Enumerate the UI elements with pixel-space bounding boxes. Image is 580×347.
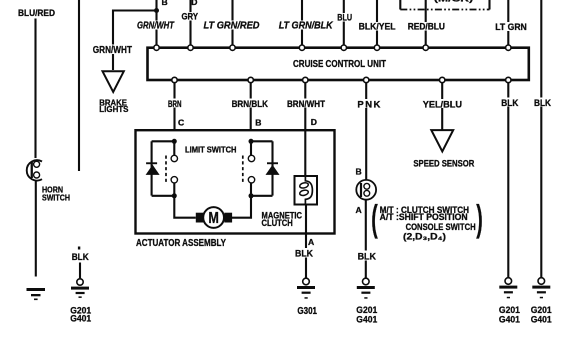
label YEL/BLU bbox=[422, 99, 464, 111]
label LT GRN/RED italic bbox=[203, 21, 260, 32]
label MAGNETIC CLUTCH bbox=[262, 211, 303, 229]
svg-text:GRY: GRY bbox=[182, 12, 199, 22]
node C junction in actuator bbox=[152, 139, 177, 144]
label M/T A/T switch block bbox=[371, 198, 483, 242]
wire BLU bbox=[343, 0, 345, 47]
wire BLU/RED vertical bbox=[34, 19, 36, 159]
label GRY bbox=[181, 12, 200, 22]
horn switch ground bbox=[27, 288, 46, 300]
label BLK (switch ground) bbox=[357, 251, 378, 263]
wire LT GRN bbox=[507, 0, 509, 47]
svg-text:CRUISE CONTROL UNIT: CRUISE CONTROL UNIT bbox=[293, 59, 386, 70]
wire horn switch to ground bbox=[35, 181, 37, 277]
svg-text:G401: G401 bbox=[70, 313, 92, 324]
svg-text:): ) bbox=[476, 198, 483, 239]
label BLK (unit right) bbox=[500, 98, 520, 110]
limit switch right contacts bbox=[243, 141, 255, 196]
svg-text:YEL/BLU: YEL/BLU bbox=[423, 100, 462, 111]
svg-text:G401: G401 bbox=[356, 314, 378, 325]
terminal BRN/BLK bbox=[248, 77, 253, 82]
actuator assembly box bbox=[136, 130, 335, 233]
node B junction in actuator bbox=[249, 139, 273, 144]
label BRN bbox=[167, 99, 183, 111]
svg-text:BLU: BLU bbox=[337, 13, 352, 23]
label BRN/WHT bbox=[286, 99, 327, 111]
svg-text:(M/CR): (M/CR) bbox=[434, 0, 473, 3]
label PNK bbox=[356, 99, 382, 111]
svg-text:CLUTCH: CLUTCH bbox=[262, 218, 293, 228]
label BLK/YEL bbox=[358, 22, 397, 32]
wire BLK right from unit to ground bbox=[507, 81, 509, 278]
svg-text:BLK: BLK bbox=[295, 249, 313, 260]
label LT GRN/BLK italic bbox=[278, 21, 337, 32]
ground G201/G401 right2 bbox=[532, 278, 550, 299]
label G201 G401 right2 bbox=[531, 305, 553, 325]
terminal BRN bbox=[172, 77, 177, 82]
magnetic clutch coil bbox=[295, 176, 318, 205]
svg-text:B: B bbox=[356, 166, 362, 176]
svg-text:ACTUATOR ASSEMBLY: ACTUATOR ASSEMBLY bbox=[136, 238, 226, 249]
svg-text:SWITCH: SWITCH bbox=[42, 193, 70, 203]
speed sensor arrow bbox=[431, 130, 453, 151]
svg-text:BRN: BRN bbox=[168, 99, 182, 110]
svg-text:LT GRN: LT GRN bbox=[495, 22, 527, 33]
wire brake lights branch bbox=[113, 11, 158, 71]
wire BRN/BLK (pin B) bbox=[250, 81, 252, 130]
diode D1 branch (left) bbox=[146, 141, 160, 195]
node left lower junction bbox=[152, 193, 196, 217]
horn switch SW1 bbox=[27, 160, 42, 180]
label BLK (G301) bbox=[294, 248, 315, 260]
cruise control unit box bbox=[148, 48, 529, 80]
svg-text:LT GRN/BLK: LT GRN/BLK bbox=[279, 21, 334, 32]
svg-text:(: ( bbox=[371, 198, 378, 239]
svg-text:CONSOLE SWITCH: CONSOLE SWITCH bbox=[406, 222, 476, 232]
svg-text:LIMIT SWITCH: LIMIT SWITCH bbox=[185, 146, 237, 155]
svg-text:M: M bbox=[208, 210, 219, 227]
svg-text:A/T :SHIFT POSITION: A/T :SHIFT POSITION bbox=[380, 212, 468, 222]
label BRN/BLK bbox=[231, 99, 270, 111]
terminal LT GRN/BLK bbox=[299, 45, 304, 50]
wire BLK to ground G201/G401 left bbox=[79, 263, 81, 279]
svg-text:BLK: BLK bbox=[501, 98, 518, 109]
svg-text:BLK: BLK bbox=[534, 98, 551, 109]
ground G301 bbox=[297, 278, 315, 299]
terminal C top of unit bbox=[154, 45, 159, 50]
svg-text:A: A bbox=[308, 237, 314, 247]
svg-text:D: D bbox=[191, 0, 197, 7]
svg-text:C: C bbox=[178, 117, 184, 127]
label LT GRN bbox=[494, 22, 527, 33]
svg-text:D: D bbox=[311, 117, 317, 127]
brake lights arrow bbox=[103, 71, 124, 92]
svg-text:G401: G401 bbox=[499, 314, 521, 325]
svg-text:GRN/WHT: GRN/WHT bbox=[137, 21, 175, 32]
label BLK (far right) bbox=[533, 98, 553, 110]
node right lower junction bbox=[232, 193, 273, 217]
wire PNK bbox=[365, 81, 367, 180]
terminal BLU bbox=[341, 45, 346, 50]
label G201 G401 right1 bbox=[499, 305, 521, 325]
label G201 G401 left bbox=[70, 306, 92, 325]
label BLU bbox=[336, 13, 353, 23]
diode D2 branch (right) bbox=[266, 141, 280, 195]
motor M bbox=[196, 207, 232, 228]
wire BLK/YEL bbox=[376, 0, 378, 47]
terminal YEL/BLU bbox=[440, 77, 445, 82]
svg-text:BRN/BLK: BRN/BLK bbox=[232, 99, 269, 110]
svg-text:SPEED SENSOR: SPEED SENSOR bbox=[413, 159, 474, 169]
wire YEL/BLU bbox=[441, 81, 443, 130]
wire magnetic clutch to ground G301 bbox=[305, 205, 307, 279]
svg-text:A: A bbox=[356, 205, 362, 215]
label HORN SWITCH bbox=[42, 185, 70, 203]
svg-text:G301: G301 bbox=[297, 306, 317, 317]
svg-text:LT GRN/RED: LT GRN/RED bbox=[204, 21, 260, 32]
label BRAKE LIGHTS bbox=[99, 98, 129, 114]
label GRN/WHT italic bbox=[136, 21, 176, 32]
svg-text:RED/BLU: RED/BLU bbox=[408, 22, 445, 32]
svg-text:PNK: PNK bbox=[357, 100, 380, 111]
svg-text:BRN/WHT: BRN/WHT bbox=[287, 99, 325, 110]
ground G201/G401 left (BLK) bbox=[71, 279, 89, 298]
svg-text:LIGHTS: LIGHTS bbox=[99, 104, 129, 114]
ground G201/G401 mid bbox=[357, 278, 375, 299]
clutch / shift position switch SW2 bbox=[356, 180, 376, 200]
terminal BRN/WHT bbox=[303, 77, 308, 82]
svg-text:B: B bbox=[255, 117, 261, 127]
limit switch left contacts bbox=[166, 141, 178, 196]
wire second left vertical (dead end) bbox=[78, 0, 80, 171]
wire BLK stub above label bbox=[78, 247, 80, 250]
svg-text:B: B bbox=[162, 0, 168, 7]
terminal BLK/YEL bbox=[374, 45, 379, 50]
svg-text:BLK: BLK bbox=[358, 252, 377, 263]
terminal PNK bbox=[364, 77, 369, 82]
label G201 G401 mid bbox=[356, 305, 378, 325]
dash-dot option box (top right, cut off) bbox=[400, 0, 489, 10]
svg-text:GRN/WHT: GRN/WHT bbox=[93, 45, 132, 56]
svg-text:BLU/RED: BLU/RED bbox=[18, 8, 55, 19]
wire LT GRN/BLK bbox=[301, 0, 303, 47]
terminal RED/BLU bbox=[423, 45, 428, 50]
wire BLK far right bbox=[540, 0, 542, 278]
terminal LT GRN/RED bbox=[230, 45, 235, 50]
svg-text:BLK/YEL: BLK/YEL bbox=[359, 22, 396, 32]
wire LT GRN/RED bbox=[231, 0, 233, 47]
terminal BLK bbox=[506, 77, 511, 82]
svg-text:G401: G401 bbox=[531, 314, 553, 325]
label GRN/WHT (brake lights) bbox=[92, 45, 134, 56]
wire BRN (pin C) bbox=[173, 81, 175, 130]
wire RED/BLU bbox=[425, 0, 427, 47]
wire clutch switch to ground bbox=[365, 200, 367, 278]
label RED/BLU bbox=[407, 22, 447, 32]
junction brake light tap bbox=[154, 8, 159, 13]
svg-text:BLK: BLK bbox=[72, 252, 89, 262]
ground G201/G401 right1 bbox=[499, 278, 517, 299]
terminal GRY bbox=[188, 45, 193, 50]
wire BRN/WHT (pin D) bbox=[304, 81, 306, 176]
wire GRY bbox=[189, 0, 191, 47]
wire GRN/WHT to cruise unit bbox=[155, 0, 157, 47]
svg-text:(2,D₃,D₄): (2,D₃,D₄) bbox=[403, 232, 446, 242]
terminal LT GRN bbox=[506, 45, 511, 50]
